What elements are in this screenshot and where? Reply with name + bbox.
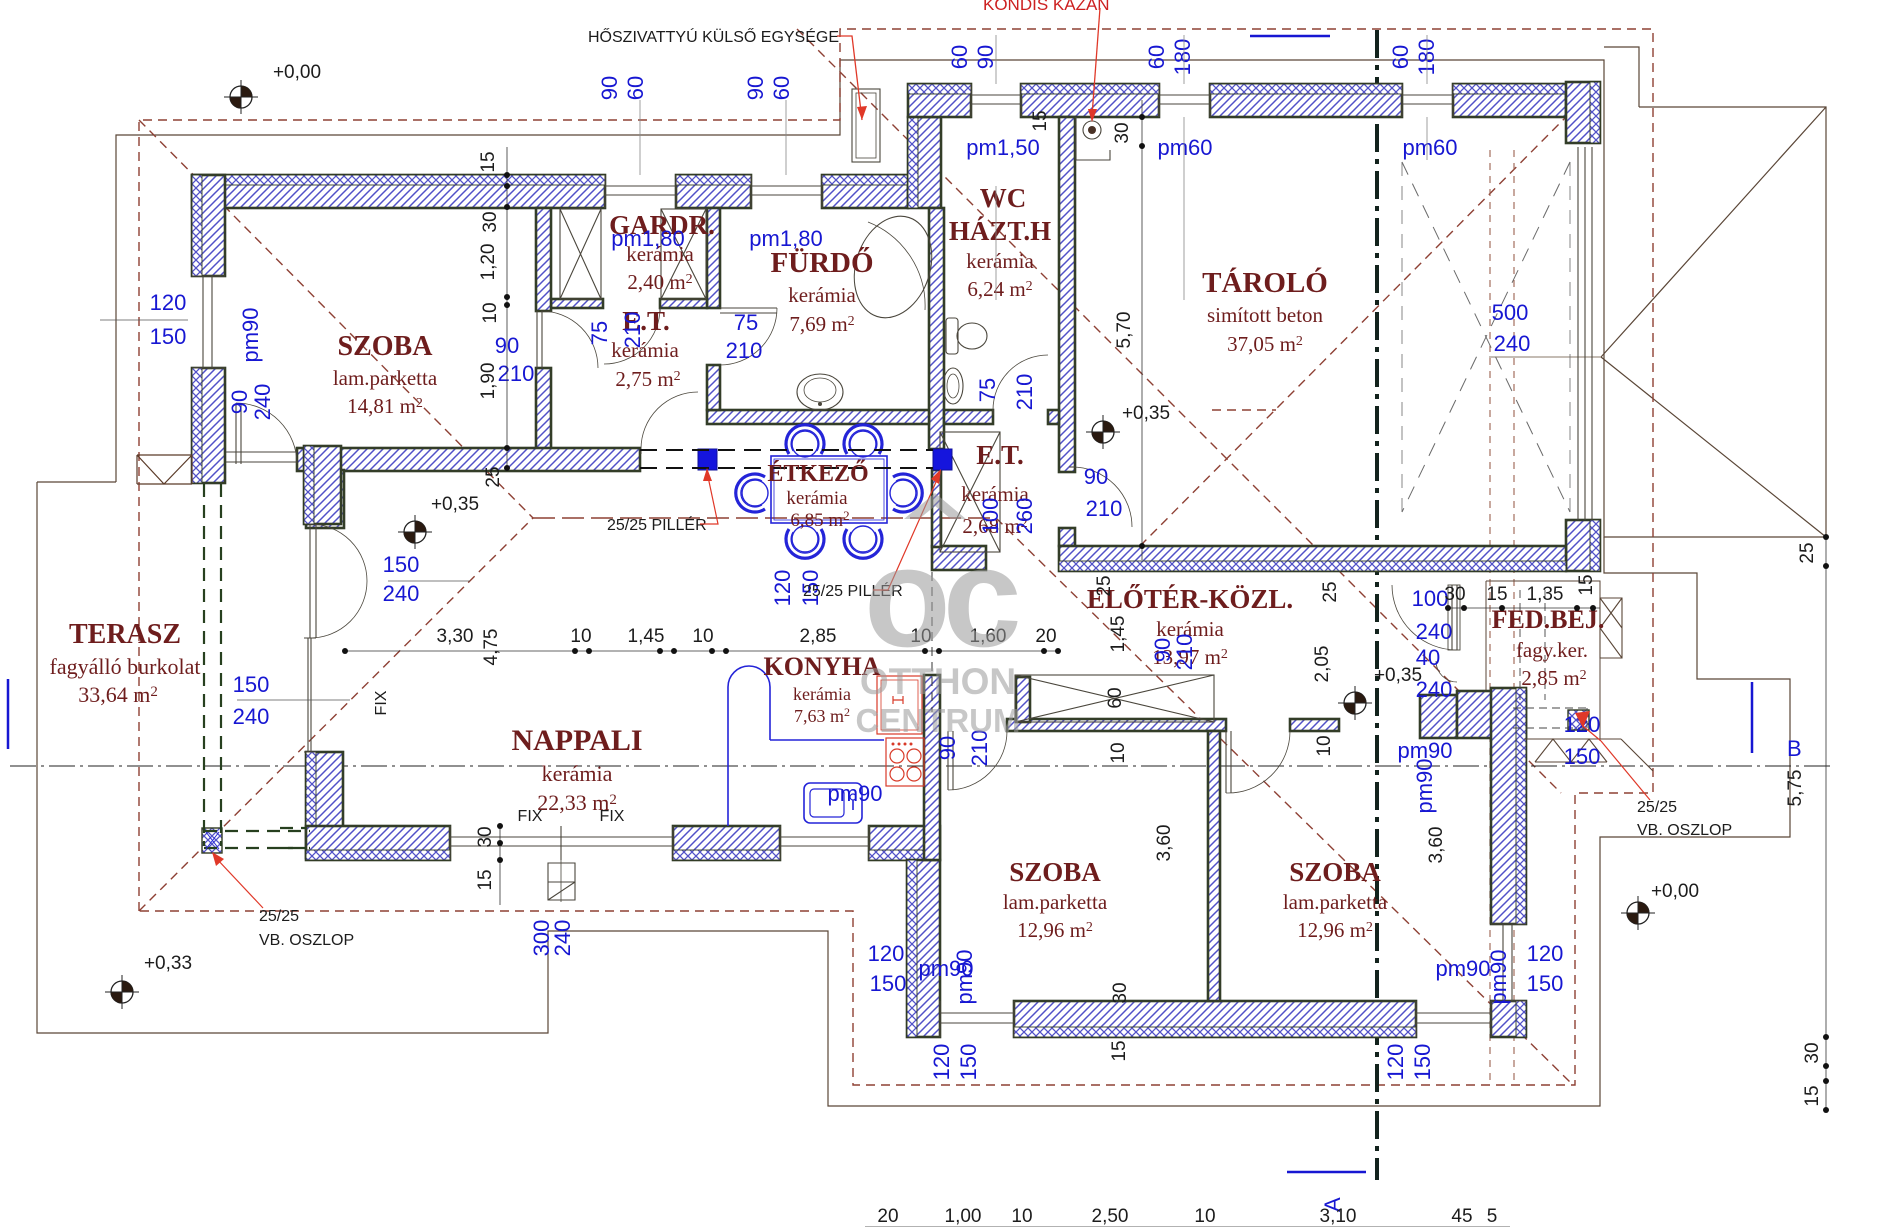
wall SZOBA2 SE corner [1491,1001,1526,1037]
svg-text:fagy.ker.: fagy.ker. [1516,638,1588,662]
condensing boiler [1083,121,1101,139]
svg-text:pm90: pm90 [238,307,263,362]
wall entry south wall piece [1420,695,1457,738]
level benchmark +0,00 NW [230,86,252,108]
wall E.T.2 south wall [932,546,986,570]
stove (red) [886,738,924,786]
door TAROLO door 90/210 [1069,466,1075,468]
svg-text:5: 5 [1487,1206,1498,1227]
svg-text:37,05 m2: 37,05 m2 [1227,332,1303,356]
window SZOBA2 south 120/150 [1416,1001,1491,1037]
dining table [771,456,887,523]
wall WC south wall seg1 [944,410,993,424]
svg-text:120: 120 [150,290,187,315]
wall insulation strip west 2 [192,368,202,483]
svg-text:90: 90 [973,45,998,69]
roof valley in TAROLO [1140,117,1566,546]
svg-text:60: 60 [1105,687,1126,708]
svg-text:25/25: 25/25 [259,908,299,925]
svg-text:25/25 PILLÉR: 25/25 PILLÉR [607,515,707,534]
svg-text:pm1,80: pm1,80 [749,226,822,251]
svg-text:150: 150 [1564,744,1601,769]
svg-text:30: 30 [475,826,496,847]
window KONYHA south pm90 120/150 [780,826,869,860]
door SZOBA hall door 90/210 [537,311,542,368]
entry steps symbol [548,863,575,900]
svg-text:15: 15 [1030,110,1051,131]
wall SZOBA east wall lower [536,368,551,449]
svg-text:1,45: 1,45 [628,626,665,647]
svg-text:33,64 m2: 33,64 m2 [78,682,158,707]
svg-text:120: 120 [929,1044,954,1081]
svg-text:FED.BEJ.: FED.BEJ. [1492,605,1605,634]
door SZOBA1 door 90/210 [948,731,953,790]
window pm60 60/180 #2 [1402,84,1453,117]
wall insulation strip ne edge [1590,82,1600,143]
svg-text:240: 240 [250,384,275,421]
svg-text:30: 30 [1802,1042,1823,1063]
svg-text:HÁZT.H: HÁZT.H [949,216,1051,246]
svg-text:30: 30 [1112,122,1133,143]
svg-text:ELŐTÉR-KÖZL.: ELŐTÉR-KÖZL. [1087,583,1293,614]
wall SZOBA2 east exterior wall [1491,688,1526,924]
svg-text:260: 260 [1012,498,1037,535]
svg-text:7,63 m2: 7,63 m2 [794,705,850,726]
svg-text:240: 240 [383,581,420,606]
svg-text:60: 60 [623,76,648,100]
svg-text:45: 45 [1451,1206,1472,1227]
svg-text:+0,00: +0,00 [1651,881,1699,902]
terrace dashed edge lines (green) [204,484,221,846]
dashed projection line at E.T.2 corner [931,572,933,712]
svg-text:pm1,80: pm1,80 [611,226,684,251]
door SZOBA terrace door 90/240 [236,403,241,464]
wall partition GARDR-FURDO lower [707,365,720,410]
svg-text:15: 15 [1802,1085,1823,1106]
svg-text:FIX: FIX [518,808,543,825]
svg-text:10: 10 [1194,1206,1215,1227]
blue pillar 25/25 #2 [933,449,952,470]
svg-text:150: 150 [233,672,270,697]
svg-text:simított beton: simított beton [1207,303,1324,327]
chair dining 4 [844,526,882,558]
eaves outline (thin solid) [116,60,1826,537]
chair dining 5 [736,474,768,512]
svg-text:1,00: 1,00 [945,1206,982,1227]
window GARDR 90/60 [605,175,676,208]
chair dining 2 [844,425,882,457]
svg-text:30: 30 [480,211,501,232]
svg-text:ÉTKEZŐ: ÉTKEZŐ [767,460,868,487]
svg-text:3,10: 3,10 [1320,1206,1357,1227]
NAPPALI south terrace dashed [280,828,306,848]
heat pump outdoor unit [852,89,880,162]
svg-text:2,75 m2: 2,75 m2 [615,367,680,391]
svg-text:150: 150 [870,971,907,996]
wall insulation strip tarolo south strip [1059,561,1566,571]
chair dining 6 [890,474,922,512]
svg-text:WC: WC [980,183,1027,213]
svg-text:3,60: 3,60 [1154,825,1175,862]
TAROLO sliding door 500/240 [1578,147,1592,520]
svg-text:90: 90 [227,390,252,414]
svg-text:240: 240 [1494,331,1531,356]
svg-text:20: 20 [1035,626,1056,647]
svg-text:oc: oc [864,518,1018,677]
svg-text:210: 210 [1012,374,1037,411]
svg-text:FIX: FIX [373,690,390,715]
svg-text:pm90: pm90 [1435,956,1490,981]
chair dining 3 [786,526,824,558]
svg-text:90: 90 [743,76,768,100]
svg-text:OTTHON: OTTHON [860,661,1016,702]
level benchmark +0,33 terrace [111,981,133,1003]
wall WC south wall seg2 [1048,410,1059,424]
svg-text:10: 10 [480,302,501,323]
svg-text:+0,35: +0,35 [431,494,479,515]
svg-text:10: 10 [692,626,713,647]
wall insulation strip west WC [908,117,918,208]
svg-text:2,85: 2,85 [800,626,837,647]
kitchen counter [728,666,884,826]
svg-text:15: 15 [1109,1040,1130,1061]
wall FURDO south wall [707,410,929,424]
svg-text:kerámia: kerámia [788,283,856,307]
svg-text:120: 120 [770,570,795,607]
svg-text:4,75: 4,75 [481,629,502,666]
wall insulation strip nw1 [304,446,314,524]
wall insulation strip n2 [1021,84,1159,94]
wall hall south wall seg1 [1007,719,1226,731]
svg-text:fagyálló burkolat: fagyálló burkolat [50,654,201,679]
level benchmark +0,00 SE [1627,902,1649,924]
WC washbasin [943,368,963,404]
svg-text:25: 25 [483,466,504,487]
svg-text:10: 10 [570,626,591,647]
level benchmark +0,35 entry [1344,692,1366,714]
door SZOBA2 door 90/210 [1226,731,1231,793]
wall NAPPALI south seg1 [306,826,450,860]
svg-text:210: 210 [498,361,535,386]
svg-text:5,70: 5,70 [1114,312,1135,349]
door sill SZOBA terrace door [226,452,297,462]
svg-text:+0,00: +0,00 [273,62,321,83]
wall NAPPALI west wall lower [306,752,343,858]
svg-text:150: 150 [1527,971,1564,996]
wall insulation strip ns2 [673,850,780,860]
blue pillar 25/25 #1 [698,449,717,470]
wall insulation strip n3 [1210,84,1402,94]
window pm60 60/180 #1 [1159,84,1210,117]
svg-text:NAPPALI: NAPPALI [511,724,642,757]
WC toilet [946,318,958,354]
wall exterior NE corner TAROLO [1566,82,1600,143]
wall insulation strip north 1 [192,175,605,185]
wall insulation strip ns1 [306,850,450,860]
svg-text:60: 60 [769,76,794,100]
svg-text:lam.parketta: lam.parketta [1003,890,1108,914]
svg-text:30: 30 [1444,584,1465,605]
wall hall west corner piece [1016,677,1030,722]
kitchen sink pm90 [804,783,862,823]
svg-text:14,81 m2: 14,81 m2 [347,394,423,418]
wall SZOBA1 west exterior wall [907,860,940,1037]
window FURDO 90/60 [751,175,822,208]
section line A-A (vertical dash-dot thick) [1375,30,1379,1180]
wall hall south wall seg2 [1290,719,1339,731]
kitchen tall unit (red) [877,676,922,734]
wall exterior north WC seg1 [908,84,971,117]
window NAPPALI west FIX 150/240 [304,638,316,752]
roof ridge [533,517,996,519]
svg-text:E.T.: E.T. [976,440,1024,470]
bathroom sink [797,374,843,410]
svg-text:25: 25 [1320,581,1341,602]
svg-text:15: 15 [478,151,499,172]
wall exterior north between windows [676,175,751,208]
level benchmark +0,35 NAPPALI [404,521,426,543]
svg-text:pm90: pm90 [827,781,882,806]
svg-text:SZOBA: SZOBA [1289,857,1381,887]
door E.T. hall door 90/210 [640,449,642,454]
svg-text:180: 180 [1170,39,1195,76]
wall insulation strip north 2 [676,175,751,185]
door entry door 100/240 [1452,585,1457,650]
cabinet E.T.2 storage unit [940,432,1000,552]
wall insulation strip nw2 [306,752,316,858]
wall exterior north W of SZOBA [192,175,605,208]
wall exterior west lower (SZOBA) [192,368,225,483]
svg-text:B: B [1787,736,1802,761]
svg-text:pm1,50: pm1,50 [966,135,1039,160]
svg-text:210: 210 [1172,634,1197,671]
wall TAROLO south wall [1059,546,1566,571]
svg-text:75: 75 [587,321,612,345]
wall corridor south wall [297,448,640,471]
svg-text:60: 60 [1144,45,1169,69]
svg-text:3,30: 3,30 [437,626,474,647]
svg-text:1,90: 1,90 [478,363,499,400]
svg-text:25: 25 [1797,542,1818,563]
svg-text:FIX: FIX [600,808,625,825]
svg-text:5,75: 5,75 [1785,770,1806,807]
window SZOBA west 120/150 [192,276,225,368]
svg-text:12,96 m2: 12,96 m2 [1017,918,1093,942]
door GARDR door 75/210 [659,308,661,312]
svg-text:240: 240 [550,920,575,957]
roof hip SE [996,518,1570,1082]
svg-text:kerámia: kerámia [786,488,848,509]
bathtub [842,206,945,328]
window NAPPALI south FIX+FIX [450,826,673,860]
wall WC west wall [929,208,944,449]
chair dining 1 [786,425,824,457]
svg-text:15: 15 [1576,574,1597,595]
svg-text:12,96 m2: 12,96 m2 [1297,918,1373,942]
cabinet GARDR wardrobe right [661,209,706,299]
svg-text:25/25: 25/25 [1637,799,1677,816]
wall insulation strip ns3 [869,850,940,860]
wall partition GARDR-FURDO upper [707,208,720,308]
roof eave outline (dashed) [139,29,1653,1085]
wall TAROLO west wall lower [1059,528,1075,546]
svg-text:pm90: pm90 [952,949,977,1004]
svg-text:2,40 m2: 2,40 m2 [627,270,692,294]
svg-text:HŐSZIVATTYÚ KÜLSŐ EGYSÉGE: HŐSZIVATTYÚ KÜLSŐ EGYSÉGE [588,27,839,46]
section markers blue [1751,682,1754,753]
FED.BEJ slab outline [1486,581,1600,739]
svg-text:lam.parketta: lam.parketta [333,366,438,390]
svg-text:210: 210 [620,312,645,349]
svg-text:15: 15 [1486,584,1507,605]
cabinet GARDR wardrobe left [560,209,601,299]
wall insulation strip s1w [907,860,917,1037]
svg-text:90: 90 [1084,464,1108,489]
svg-text:KONDIS KAZÁN: KONDIS KAZÁN [983,0,1110,14]
wall partition SZOBA1-SZOBA2 [1208,731,1220,1001]
wall insulation strip west 1 [192,175,202,276]
wall insulation strip n4 [1453,84,1566,94]
svg-text:pm60: pm60 [1402,135,1457,160]
svg-text:90: 90 [597,76,622,100]
svg-text:1,45: 1,45 [1108,616,1129,653]
svg-text:120: 120 [1383,1044,1408,1081]
svg-text:240: 240 [233,704,270,729]
svg-text:75: 75 [734,310,758,335]
wall GARDR south seg1 [551,299,603,308]
svg-text:pm60: pm60 [1157,135,1212,160]
wall bedrooms south wall [1014,1001,1416,1037]
wall entry corner wall [1457,691,1526,738]
wall corridor south wall step [306,470,344,528]
door FURDO door 75/210 [720,308,777,313]
svg-text:CENTRUM: CENTRUM [856,702,1021,739]
svg-text:210: 210 [1086,496,1123,521]
terrace VB column 25/25 [202,828,222,853]
svg-text:20: 20 [877,1206,898,1227]
svg-text:180: 180 [1414,39,1439,76]
TAROLO door swing dashed X [1402,162,1570,512]
svg-text:VB. OSZLOP: VB. OSZLOP [1637,822,1732,839]
wall exterior north WC seg2 [1021,84,1159,117]
svg-text:30: 30 [1110,982,1131,1003]
svg-text:kerámia: kerámia [793,684,851,704]
roof hip lines [139,120,533,518]
wall exterior north E segment [822,175,908,208]
svg-text:3,60: 3,60 [1426,827,1447,864]
svg-text:+0,35: +0,35 [1122,403,1170,424]
svg-text:120: 120 [868,941,905,966]
watermark Otthon Centrum [856,493,1021,739]
svg-text:2,50: 2,50 [1092,1206,1129,1227]
svg-text:2,05: 2,05 [1312,646,1333,683]
svg-text:500: 500 [1492,300,1529,325]
entry door sill [1448,585,1460,650]
svg-text:10: 10 [1011,1206,1032,1227]
svg-text:+0,35: +0,35 [1374,665,1422,686]
svg-text:150: 150 [383,552,420,577]
svg-text:VB. OSZLOP: VB. OSZLOP [259,932,354,949]
wall NAPPALI west wall upper [304,446,341,524]
wall insulation strip bs [1014,1027,1416,1037]
window SZOBA1 south 120/150 [940,1001,1014,1037]
window SZOBA2 east corner 120/150 [1491,924,1526,1001]
svg-text:TÁROLÓ: TÁROLÓ [1202,266,1328,299]
eave console truss left [137,455,192,484]
terrace double door 150/240 [310,524,316,638]
svg-text:6,85 m2: 6,85 m2 [790,508,849,531]
svg-text:2,85 m2: 2,85 m2 [1521,666,1586,690]
wall GARDR south seg2 [660,299,707,308]
wall KONYHA east wall [924,675,940,860]
level benchmark +0,35 court [1092,421,1114,443]
entry door small leaf 40 [1436,661,1457,682]
wall insulation strip s2c [1516,1001,1526,1037]
svg-text:6,24 m2: 6,24 m2 [967,277,1032,301]
svg-text:90: 90 [935,736,960,760]
svg-text:1,35: 1,35 [1527,584,1564,605]
wall insulation strip s2e [1516,688,1526,924]
svg-text:240: 240 [1416,619,1453,644]
svg-text:100: 100 [1412,586,1449,611]
svg-text:25: 25 [1094,575,1115,596]
gable (roof elevation, right) [1639,107,1826,537]
wall E.T.2 west wall [932,470,941,547]
wall insulation strip se edge [1590,520,1600,571]
wall exterior north TAROLO seg1 [1210,84,1402,117]
wall exterior west upper (SZOBA) [192,175,225,276]
beam dashed lines over dining opening [640,450,933,468]
svg-text:TERASZ: TERASZ [69,619,181,650]
svg-text:75: 75 [975,378,1000,402]
roof section dashed verticals [1489,150,1491,1085]
wall exterior north TAROLO seg2 [1453,84,1566,117]
svg-text:60: 60 [1388,45,1413,69]
wall SZOBA east wall upper [536,208,551,311]
svg-text:15: 15 [475,869,496,890]
wall exterior west of WC block [908,117,941,208]
wall TAROLO west wall upper [1059,117,1075,472]
FED.BEJ truss marks [1524,739,1653,771]
svg-text:SZOBA: SZOBA [1009,857,1101,887]
FED.BEJ VB column 25/25 [1568,710,1589,730]
window WC pm1,50 60/90 [971,84,1021,117]
svg-text:kerámia: kerámia [966,249,1034,273]
wall NAPPALI south seg3 [869,826,940,860]
svg-text:210: 210 [726,338,763,363]
svg-text:lam.parketta: lam.parketta [1283,890,1388,914]
wall exterior SE corner TAROLO [1566,520,1600,571]
door WC door 75/210 [992,410,994,415]
svg-text:SZOBA: SZOBA [338,331,434,362]
section line B-B (horizontal dash-dot) [10,765,1830,767]
svg-text:10: 10 [1314,735,1335,756]
svg-text:120: 120 [1527,941,1564,966]
svg-text:60: 60 [947,45,972,69]
svg-text:10: 10 [1108,742,1129,763]
svg-text:150: 150 [1410,1044,1435,1081]
svg-text:+0,33: +0,33 [144,953,192,974]
svg-text:kerámia: kerámia [542,761,613,786]
cabinet hall wardrobe [1015,675,1214,722]
svg-text:pm90: pm90 [1486,949,1511,1004]
wall insulation strip n1 [908,84,971,94]
svg-text:150: 150 [150,324,187,349]
svg-text:7,69 m2: 7,69 m2 [789,312,854,336]
wall NAPPALI south seg2 [673,826,780,860]
svg-text:pm90: pm90 [1412,758,1437,813]
svg-text:1,20: 1,20 [478,244,499,281]
